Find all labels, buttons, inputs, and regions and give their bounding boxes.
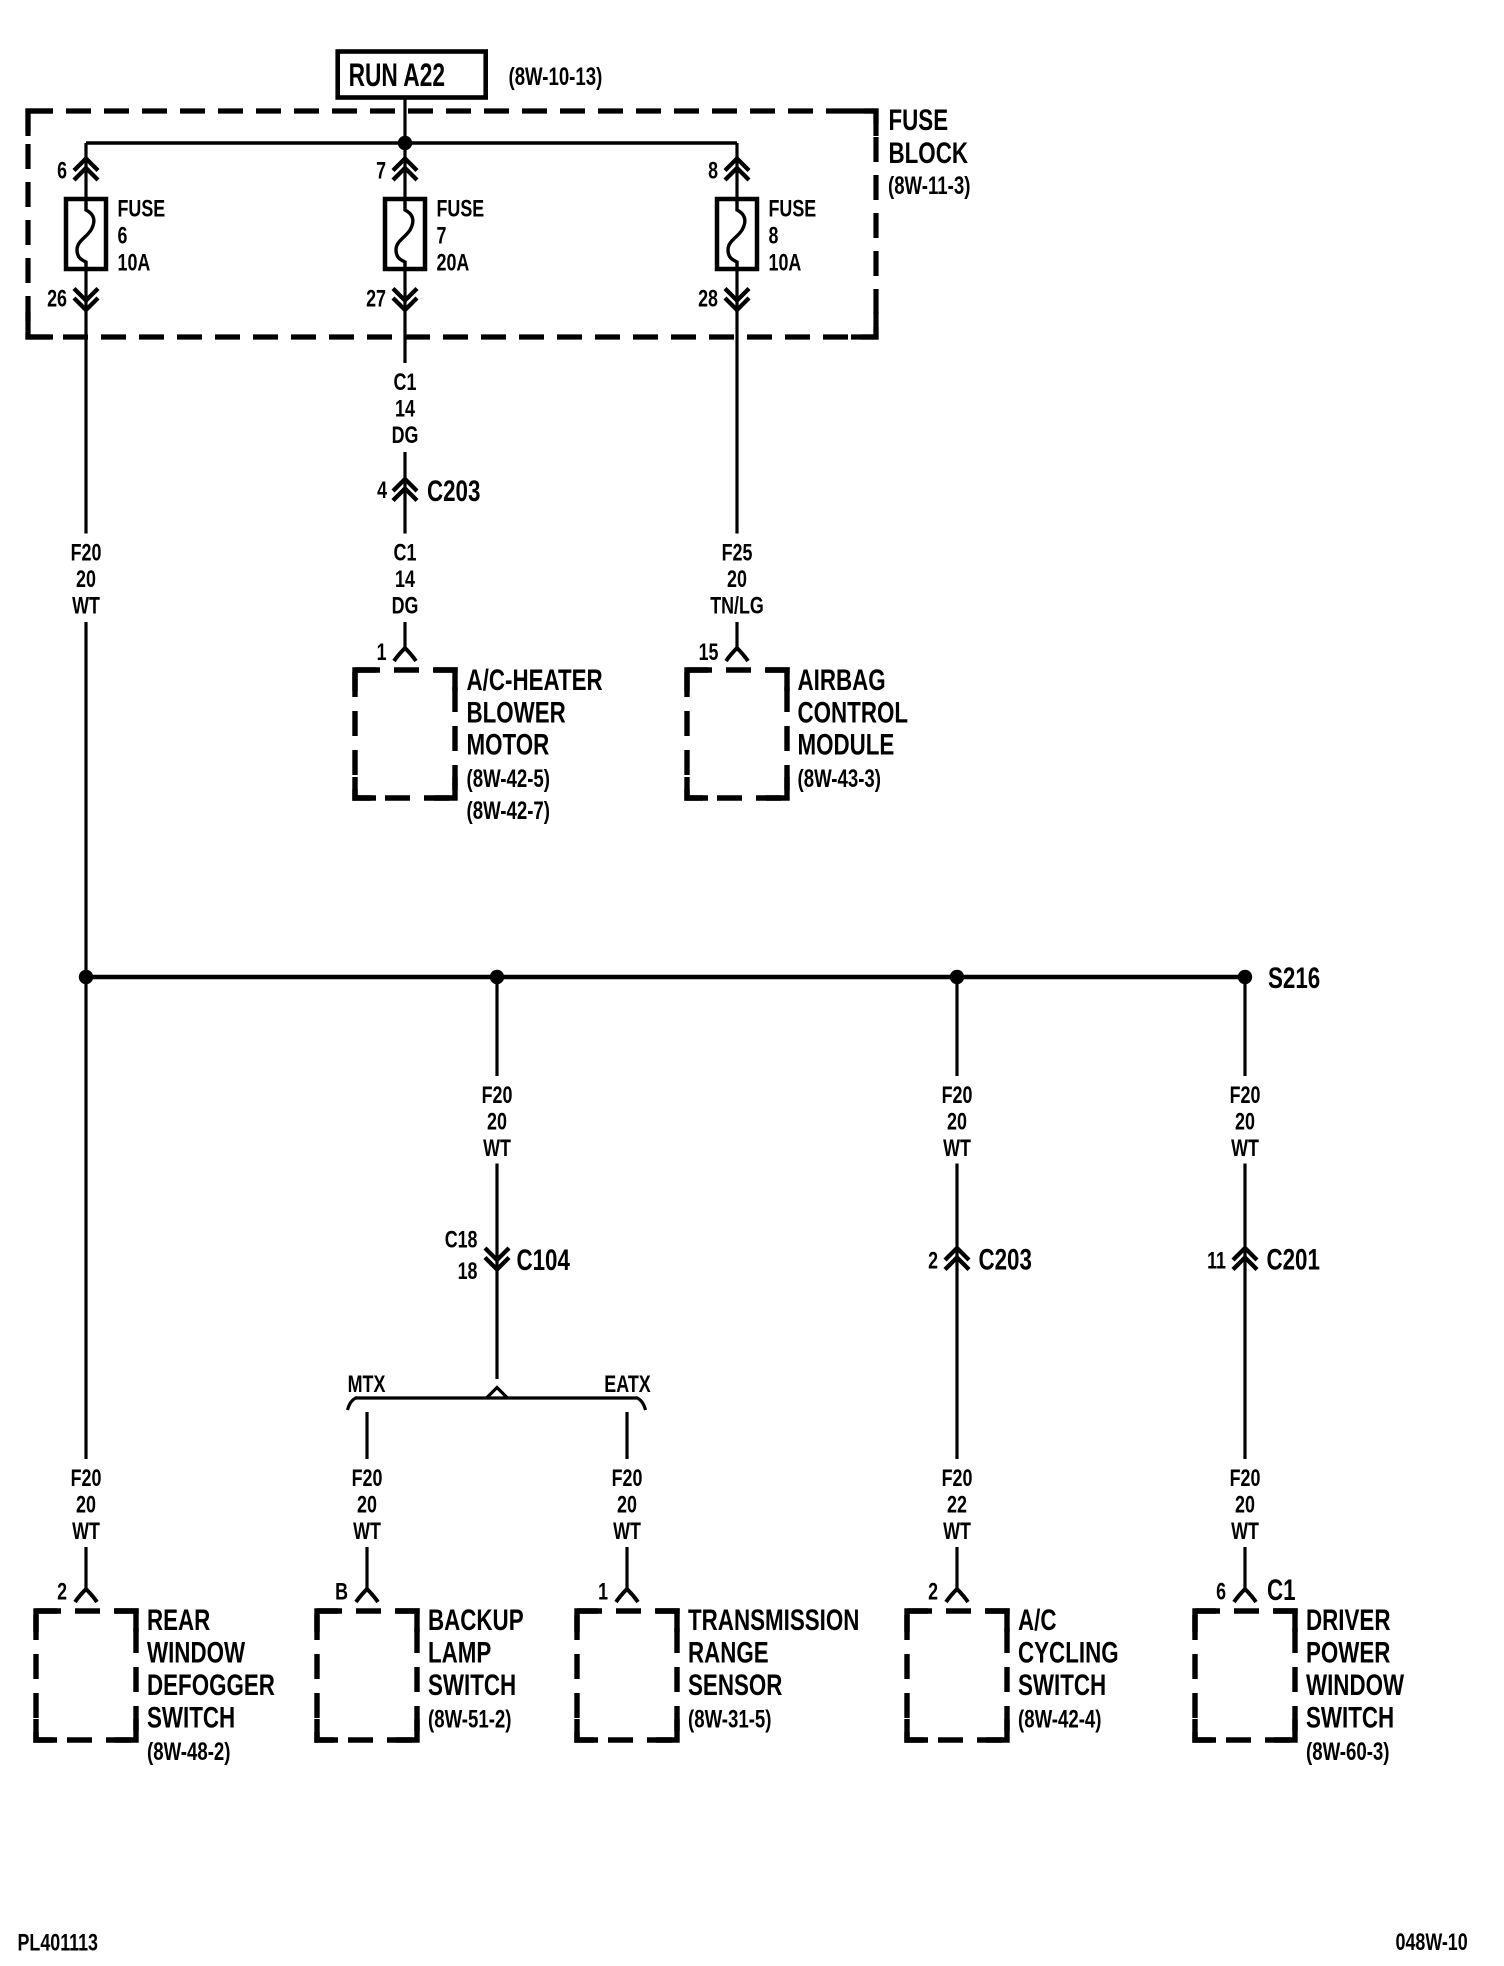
svg-text:FUSE: FUSE [437, 196, 485, 223]
svg-text:F25: F25 [722, 540, 753, 567]
svg-text:28: 28 [698, 286, 718, 313]
svg-text:BLOWER: BLOWER [467, 696, 567, 729]
svg-text:CONTROL: CONTROL [798, 696, 909, 729]
svg-text:WT: WT [613, 1518, 641, 1545]
svg-text:DRIVER: DRIVER [1306, 1604, 1391, 1637]
svg-text:048W-10: 048W-10 [1396, 1929, 1468, 1956]
svg-text:BLOCK: BLOCK [889, 137, 969, 170]
svg-text:F20: F20 [71, 540, 102, 567]
svg-text:F20: F20 [352, 1465, 383, 1492]
svg-text:F20: F20 [612, 1465, 643, 1492]
svg-text:20: 20 [357, 1492, 377, 1519]
svg-text:A/C: A/C [1018, 1604, 1057, 1637]
svg-text:WINDOW: WINDOW [147, 1637, 246, 1670]
svg-text:14: 14 [395, 566, 415, 593]
svg-text:C1: C1 [394, 540, 417, 567]
svg-text:WT: WT [1231, 1518, 1259, 1545]
svg-text:20: 20 [727, 566, 747, 593]
svg-text:SENSOR: SENSOR [688, 1669, 783, 1702]
svg-text:SWITCH: SWITCH [1018, 1669, 1106, 1702]
svg-text:F20: F20 [1230, 1465, 1261, 1492]
svg-text:WT: WT [72, 1518, 100, 1545]
svg-text:20: 20 [76, 566, 96, 593]
svg-text:SWITCH: SWITCH [147, 1702, 235, 1735]
svg-text:F20: F20 [942, 1465, 973, 1492]
svg-text:WT: WT [1231, 1135, 1259, 1162]
svg-text:WT: WT [353, 1518, 381, 1545]
svg-text:WINDOW: WINDOW [1306, 1669, 1405, 1702]
svg-text:8: 8 [708, 158, 718, 185]
svg-text:1: 1 [377, 639, 387, 666]
svg-text:11: 11 [1207, 1248, 1226, 1275]
svg-text:4: 4 [377, 477, 387, 504]
svg-text:MTX: MTX [348, 1371, 386, 1398]
svg-text:18: 18 [458, 1258, 478, 1285]
svg-text:F20: F20 [942, 1082, 973, 1109]
svg-text:TN/LG: TN/LG [710, 593, 764, 620]
svg-text:7: 7 [376, 158, 386, 185]
svg-text:C1: C1 [1267, 1574, 1296, 1607]
svg-text:BACKUP: BACKUP [428, 1604, 524, 1637]
svg-text:(8W-42-4): (8W-42-4) [1018, 1706, 1102, 1734]
svg-text:(8W-48-2): (8W-48-2) [147, 1738, 231, 1766]
svg-text:15: 15 [699, 639, 719, 666]
svg-text:F20: F20 [482, 1082, 513, 1109]
svg-text:DG: DG [392, 422, 419, 449]
svg-text:PL401113: PL401113 [18, 1930, 99, 1957]
svg-text:14: 14 [395, 396, 415, 423]
svg-text:REAR: REAR [147, 1604, 211, 1637]
svg-text:C201: C201 [1267, 1244, 1320, 1277]
svg-text:(8W-11-3): (8W-11-3) [888, 172, 970, 200]
svg-text:(8W-42-7): (8W-42-7) [467, 797, 551, 825]
svg-text:MOTOR: MOTOR [467, 729, 550, 762]
svg-text:2: 2 [928, 1579, 938, 1606]
svg-text:FUSE: FUSE [889, 104, 949, 137]
svg-text:CYCLING: CYCLING [1018, 1637, 1119, 1670]
svg-text:20: 20 [617, 1492, 637, 1519]
svg-text:WT: WT [483, 1135, 511, 1162]
svg-text:A/C-HEATER: A/C-HEATER [467, 664, 603, 697]
svg-text:(8W-43-3): (8W-43-3) [798, 765, 882, 793]
svg-text:(8W-42-5): (8W-42-5) [467, 765, 551, 793]
svg-text:6: 6 [57, 158, 67, 185]
svg-text:F20: F20 [1230, 1082, 1261, 1109]
svg-text:WT: WT [943, 1518, 971, 1545]
svg-text:C1: C1 [394, 369, 417, 396]
svg-text:20: 20 [487, 1109, 507, 1136]
svg-text:10A: 10A [118, 250, 151, 277]
svg-text:RUN A22: RUN A22 [349, 57, 445, 93]
svg-text:WT: WT [72, 593, 100, 620]
svg-text:MODULE: MODULE [798, 729, 895, 762]
svg-text:20: 20 [76, 1492, 96, 1519]
svg-text:2: 2 [928, 1248, 938, 1275]
svg-text:FUSE: FUSE [769, 196, 817, 223]
svg-text:(8W-60-3): (8W-60-3) [1306, 1738, 1390, 1766]
svg-text:(8W-10-13): (8W-10-13) [509, 63, 603, 91]
svg-text:LAMP: LAMP [428, 1637, 491, 1670]
svg-text:C203: C203 [979, 1244, 1032, 1277]
svg-text:(8W-51-2): (8W-51-2) [428, 1706, 512, 1734]
svg-text:POWER: POWER [1306, 1637, 1391, 1670]
svg-text:6: 6 [118, 223, 128, 250]
svg-text:20: 20 [1235, 1492, 1255, 1519]
svg-text:B: B [335, 1579, 348, 1606]
svg-text:26: 26 [47, 286, 67, 313]
svg-text:1: 1 [598, 1579, 608, 1606]
svg-text:22: 22 [947, 1492, 967, 1519]
svg-text:RANGE: RANGE [688, 1637, 769, 1670]
svg-text:10A: 10A [769, 250, 802, 277]
svg-text:DEFOGGER: DEFOGGER [147, 1669, 275, 1702]
svg-text:FUSE: FUSE [118, 196, 166, 223]
svg-text:C18: C18 [445, 1227, 478, 1254]
svg-text:6: 6 [1216, 1579, 1226, 1606]
svg-text:C104: C104 [517, 1244, 571, 1277]
svg-text:TRANSMISSION: TRANSMISSION [688, 1604, 859, 1637]
svg-text:EATX: EATX [604, 1371, 650, 1398]
svg-text:(8W-31-5): (8W-31-5) [688, 1706, 772, 1734]
svg-text:20: 20 [947, 1109, 967, 1136]
svg-text:7: 7 [437, 223, 447, 250]
svg-text:C203: C203 [427, 475, 480, 508]
svg-text:WT: WT [943, 1135, 971, 1162]
svg-text:20: 20 [1235, 1109, 1255, 1136]
svg-text:2: 2 [57, 1579, 67, 1606]
svg-text:27: 27 [366, 286, 386, 313]
svg-text:SWITCH: SWITCH [428, 1669, 516, 1702]
svg-text:8: 8 [769, 223, 779, 250]
svg-text:AIRBAG: AIRBAG [798, 664, 886, 697]
svg-text:DG: DG [392, 593, 419, 620]
svg-text:S216: S216 [1268, 962, 1320, 995]
svg-text:20A: 20A [437, 250, 470, 277]
svg-text:SWITCH: SWITCH [1306, 1702, 1394, 1735]
svg-text:F20: F20 [71, 1465, 102, 1492]
